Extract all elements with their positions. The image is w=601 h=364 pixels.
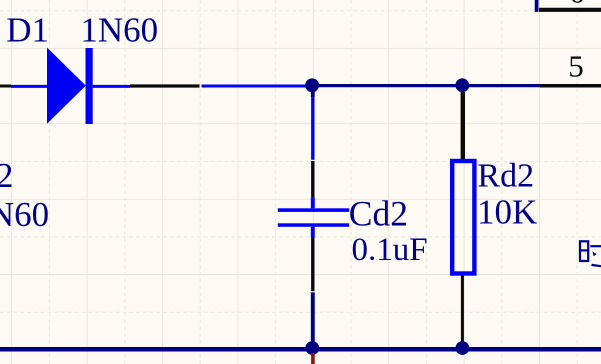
svg-text:10K: 10K xyxy=(477,193,537,232)
svg-text:1N60: 1N60 xyxy=(80,10,158,49)
svg-text:6: 6 xyxy=(569,0,585,10)
svg-text:Cd2: Cd2 xyxy=(349,193,408,233)
svg-text:5: 5 xyxy=(568,49,584,84)
svg-text:D1: D1 xyxy=(6,10,49,49)
svg-text:Rd2: Rd2 xyxy=(477,157,534,194)
svg-text:1N60: 1N60 xyxy=(0,195,49,234)
svg-text:D2: D2 xyxy=(0,156,13,195)
svg-text:0.1uF: 0.1uF xyxy=(352,232,428,268)
